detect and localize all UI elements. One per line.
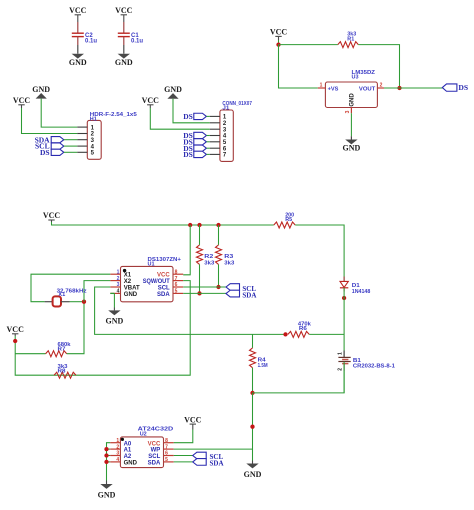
svg-text:3k3: 3k3 xyxy=(204,260,214,266)
svg-text:GND: GND xyxy=(124,292,138,298)
svg-text:R1: R1 xyxy=(347,36,354,42)
svg-text:VCC: VCC xyxy=(148,441,161,447)
svg-text:GND: GND xyxy=(349,93,355,107)
svg-text:VCC: VCC xyxy=(7,325,25,334)
svg-text:0.1u: 0.1u xyxy=(131,39,143,45)
svg-text:R3: R3 xyxy=(224,254,233,260)
svg-text:VCC: VCC xyxy=(270,28,288,37)
svg-text:5: 5 xyxy=(165,457,168,463)
svg-text:2: 2 xyxy=(117,276,120,282)
svg-text:DS: DS xyxy=(458,83,468,92)
svg-text:SQW/OUT: SQW/OUT xyxy=(143,279,170,285)
svg-text:GND: GND xyxy=(98,490,116,499)
svg-text:GND: GND xyxy=(32,85,50,94)
svg-text:A1: A1 xyxy=(124,448,132,454)
svg-text:6: 6 xyxy=(165,451,168,457)
svg-text:VCC: VCC xyxy=(69,6,87,15)
svg-text:VCC: VCC xyxy=(142,96,160,105)
svg-text:4: 4 xyxy=(117,289,120,295)
svg-text:3k3: 3k3 xyxy=(224,260,234,266)
svg-text:SDA: SDA xyxy=(242,292,256,300)
svg-text:SCL: SCL xyxy=(158,285,170,291)
svg-text:HDR-F-2.54_1x5: HDR-F-2.54_1x5 xyxy=(90,112,137,118)
svg-text:2: 2 xyxy=(337,368,343,371)
svg-text:GND: GND xyxy=(106,317,124,326)
svg-text:GND: GND xyxy=(244,470,262,479)
svg-text:VCC: VCC xyxy=(13,96,31,105)
svg-text:VCC: VCC xyxy=(157,273,170,279)
svg-text:R6: R6 xyxy=(299,326,307,332)
svg-text:X1: X1 xyxy=(124,273,132,279)
svg-text:8: 8 xyxy=(165,438,168,444)
svg-text:1: 1 xyxy=(116,438,119,444)
svg-text:1: 1 xyxy=(320,83,323,89)
svg-text:VOUT: VOUT xyxy=(359,87,376,93)
svg-text:VBAT: VBAT xyxy=(124,285,140,291)
svg-text:R8: R8 xyxy=(58,368,66,374)
svg-text:DS: DS xyxy=(40,148,50,157)
svg-text:0.1u: 0.1u xyxy=(85,39,97,45)
svg-text:6: 6 xyxy=(175,282,178,288)
svg-text:VCC: VCC xyxy=(115,6,133,15)
svg-text:R2: R2 xyxy=(204,254,213,260)
svg-text:3: 3 xyxy=(116,451,119,457)
svg-text:7: 7 xyxy=(175,276,178,282)
svg-text:X2: X2 xyxy=(124,279,132,285)
svg-text:DS: DS xyxy=(183,150,193,159)
svg-text:J1: J1 xyxy=(222,105,229,111)
svg-text:1N4148: 1N4148 xyxy=(352,289,371,295)
svg-text:SDA: SDA xyxy=(148,461,161,467)
svg-text:3: 3 xyxy=(117,282,120,288)
svg-text:VCC: VCC xyxy=(184,415,202,424)
svg-text:GND: GND xyxy=(343,144,361,153)
svg-text:WP: WP xyxy=(151,448,161,454)
svg-text:GND: GND xyxy=(69,58,87,67)
svg-text:2: 2 xyxy=(116,444,119,450)
svg-text:H1: H1 xyxy=(90,117,97,123)
svg-text:SDA: SDA xyxy=(210,459,224,467)
svg-text:R5: R5 xyxy=(285,217,292,223)
svg-text:U2: U2 xyxy=(140,431,147,437)
svg-text:DS: DS xyxy=(183,112,193,121)
svg-text:U1: U1 xyxy=(148,262,155,268)
svg-text:1: 1 xyxy=(337,352,343,355)
svg-text:1.5M: 1.5M xyxy=(258,363,268,369)
svg-text:D1: D1 xyxy=(352,283,360,289)
svg-text:CR2032-BS-8-1: CR2032-BS-8-1 xyxy=(353,364,395,370)
svg-text:GND: GND xyxy=(164,85,182,94)
svg-text:SDA: SDA xyxy=(157,292,170,298)
svg-text:R7: R7 xyxy=(58,347,66,353)
svg-text:5: 5 xyxy=(175,289,178,295)
svg-text:1: 1 xyxy=(117,269,120,275)
svg-text:2: 2 xyxy=(380,83,383,89)
svg-text:U3: U3 xyxy=(352,75,359,81)
svg-text:A2: A2 xyxy=(124,454,132,460)
svg-text:4: 4 xyxy=(116,457,119,463)
svg-text:7: 7 xyxy=(165,444,168,450)
svg-text:GND: GND xyxy=(115,58,133,67)
svg-text:VCC: VCC xyxy=(43,211,61,220)
svg-text:8: 8 xyxy=(175,269,178,275)
svg-text:A0: A0 xyxy=(124,441,132,447)
svg-text:3: 3 xyxy=(345,110,351,113)
svg-text:X1: X1 xyxy=(58,292,65,298)
svg-text:SCL: SCL xyxy=(148,454,160,460)
svg-text:+VS: +VS xyxy=(328,87,339,93)
svg-text:GND: GND xyxy=(124,461,138,467)
